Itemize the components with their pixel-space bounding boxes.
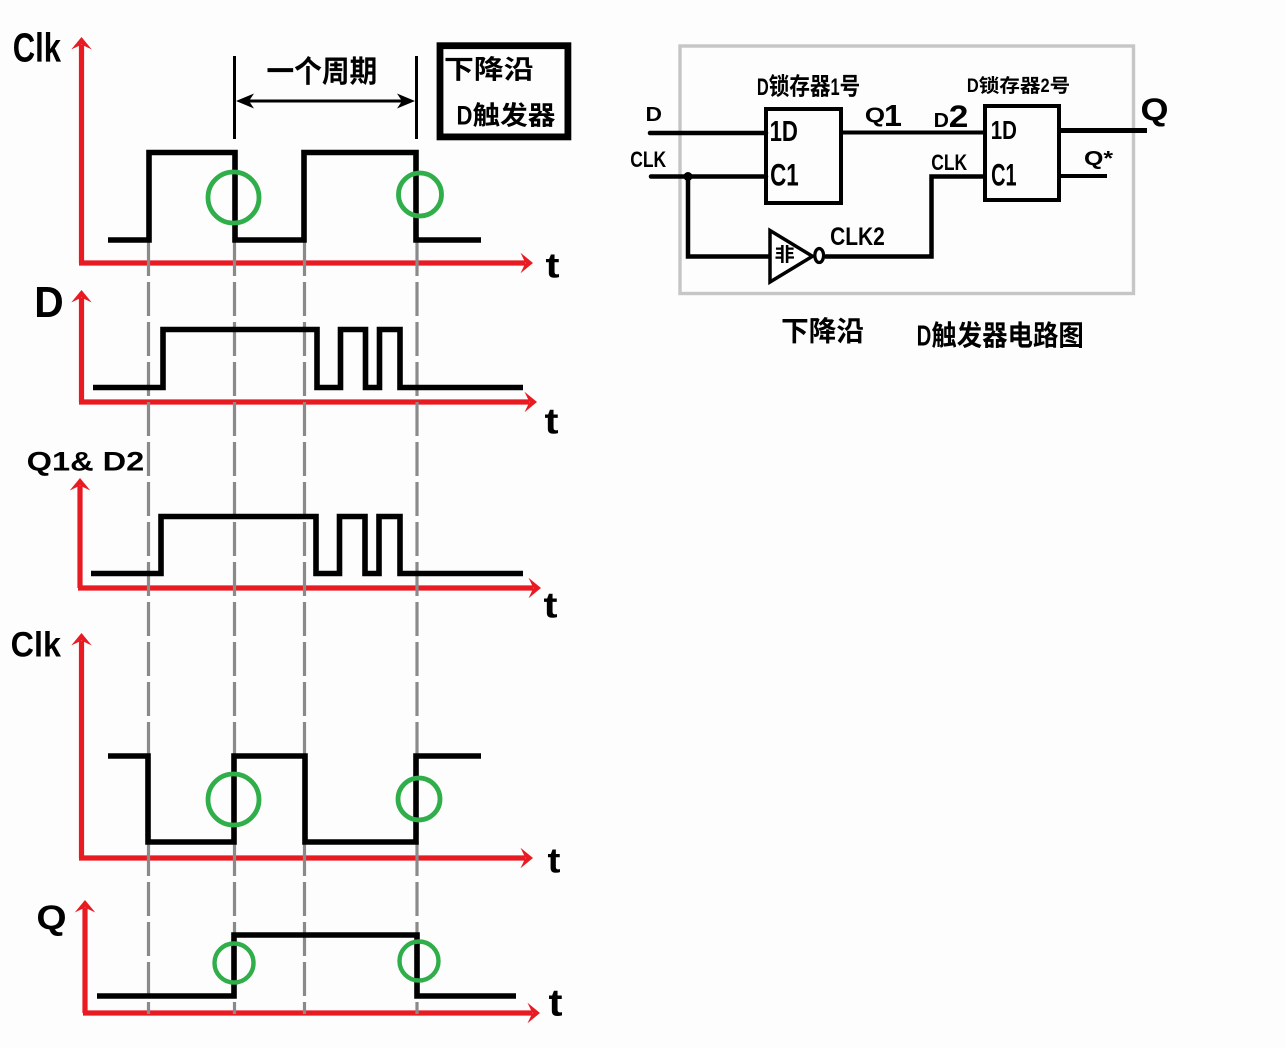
svg-text:Q: Q [36, 898, 66, 937]
svg-text:t: t [543, 585, 557, 626]
svg-text:1D: 1D [770, 116, 798, 147]
svg-text:D: D [457, 102, 473, 131]
svg-text:D: D [917, 321, 932, 352]
svg-text:1: 1 [884, 99, 902, 133]
svg-text:CLK2: CLK2 [830, 222, 885, 250]
svg-text:D: D [34, 278, 63, 327]
svg-text:t: t [544, 401, 558, 442]
svg-text:D: D [757, 74, 769, 101]
svg-text:CLK: CLK [630, 148, 666, 173]
svg-text:Q*: Q* [1084, 147, 1113, 169]
svg-text:t: t [548, 983, 562, 1025]
svg-text:t: t [545, 247, 559, 286]
svg-text:Clk: Clk [11, 625, 61, 665]
svg-text:C1: C1 [991, 157, 1016, 193]
svg-text:CLK: CLK [931, 151, 967, 176]
svg-text:Q: Q [1141, 92, 1169, 127]
svg-text:D: D [967, 75, 979, 96]
svg-text:Q: Q [865, 104, 885, 127]
svg-text:Clk: Clk [13, 24, 62, 70]
svg-text:1: 1 [830, 74, 839, 101]
svg-text:1D: 1D [991, 116, 1017, 145]
svg-text:t: t [548, 842, 561, 881]
svg-text:D: D [934, 109, 949, 132]
svg-text:D: D [645, 102, 661, 126]
svg-text:Q1& D2: Q1& D2 [27, 447, 145, 477]
svg-text:2: 2 [1040, 75, 1049, 96]
svg-text:2: 2 [949, 100, 969, 135]
svg-text:C1: C1 [770, 158, 799, 192]
